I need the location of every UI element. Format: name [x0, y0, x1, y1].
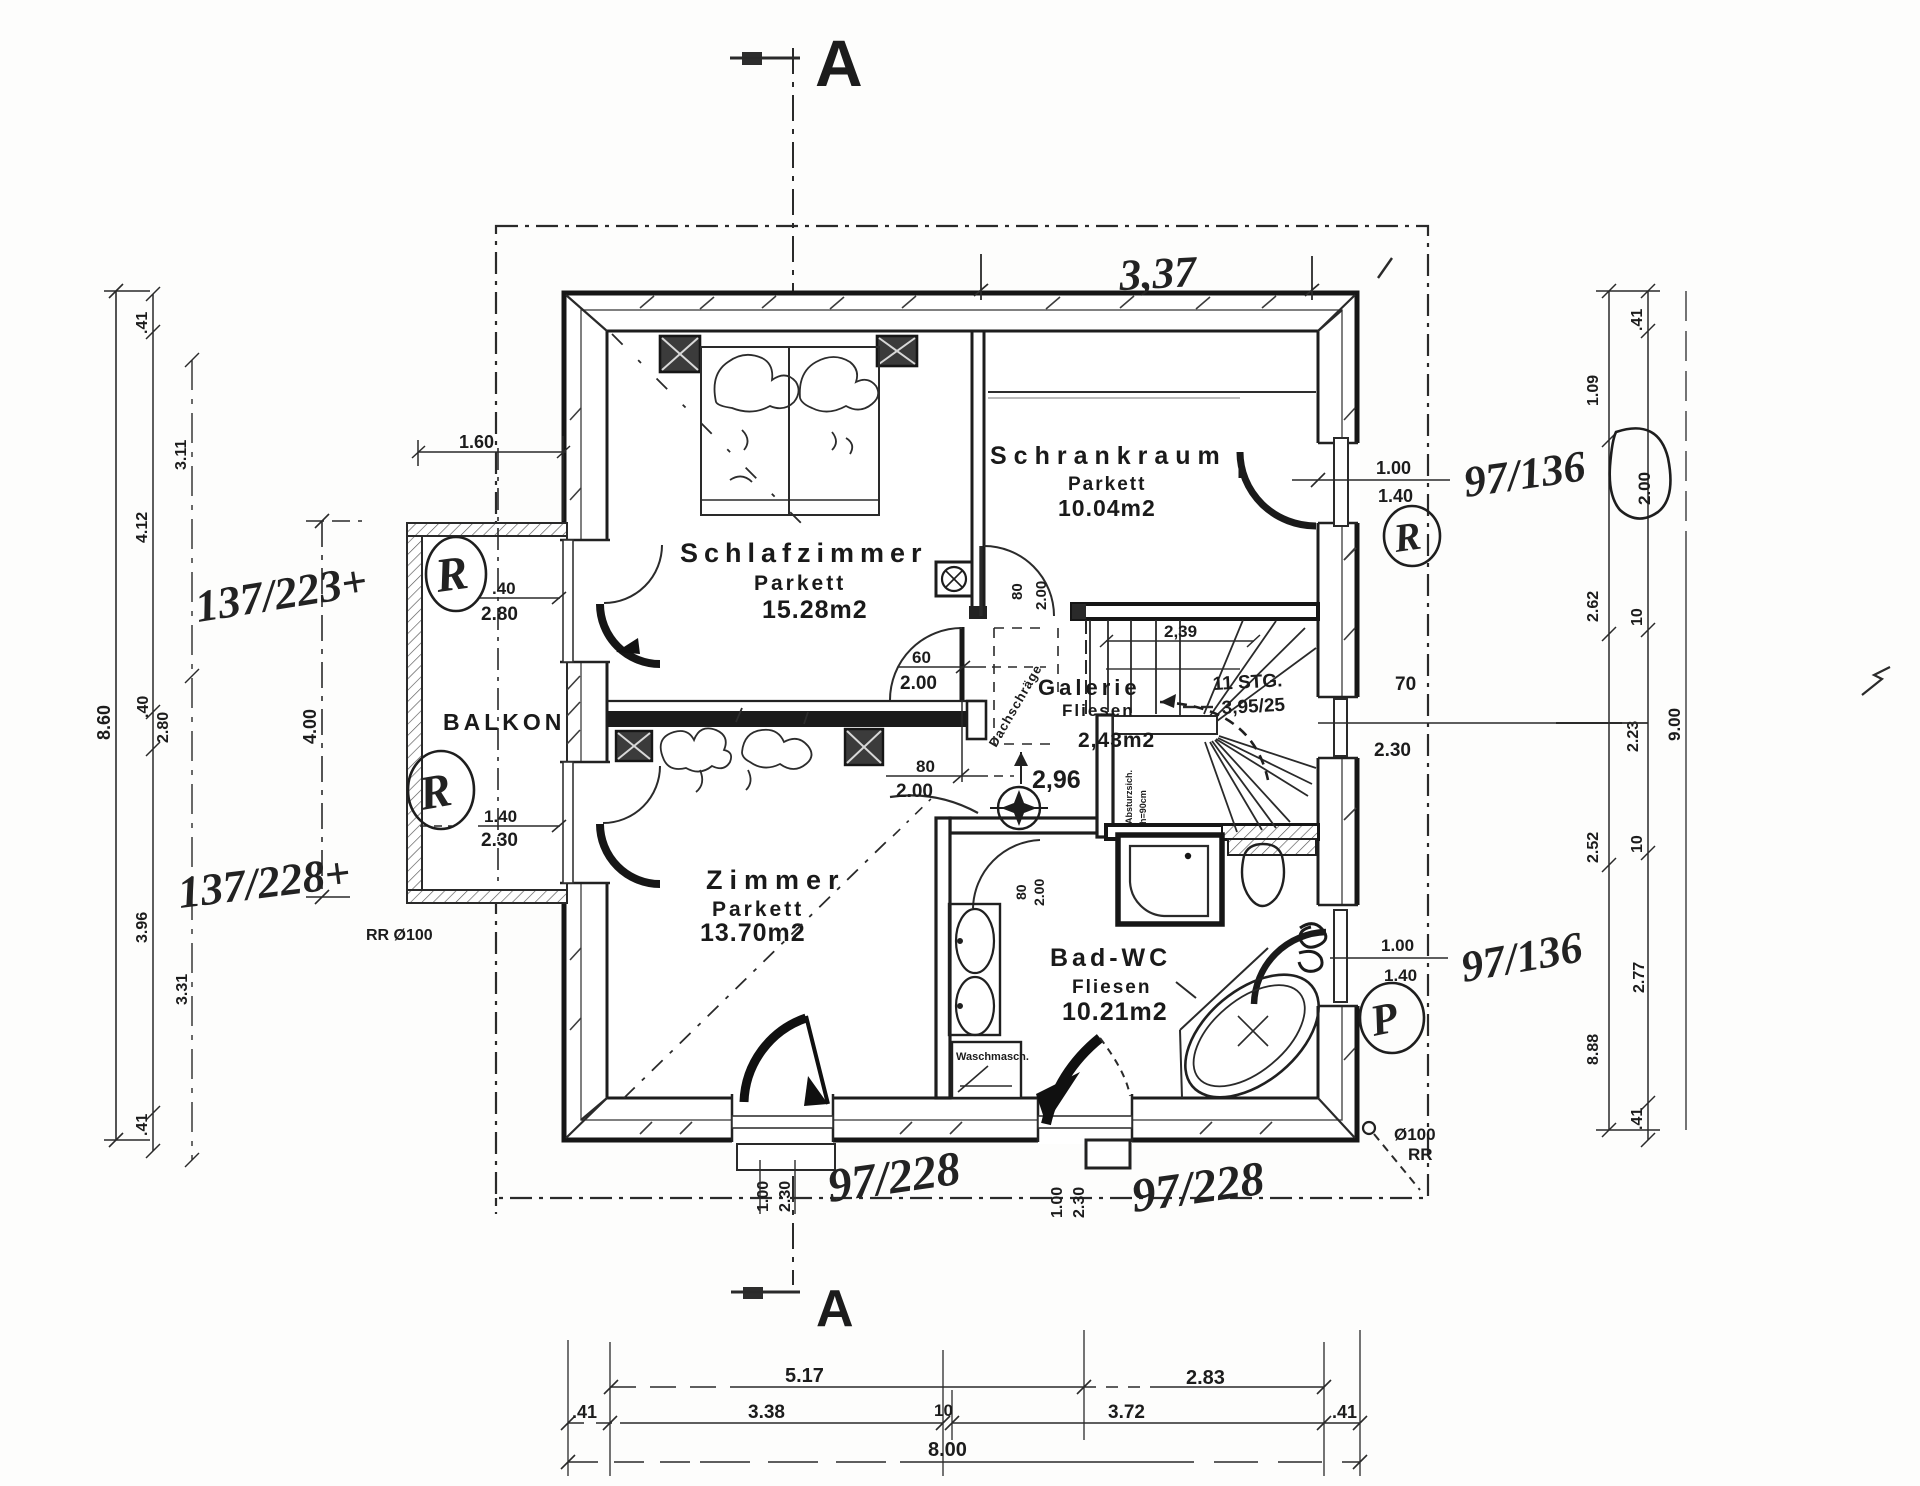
svg-text:Parkett: Parkett: [712, 898, 804, 921]
roof slope dash-dot Zimmer diagonal: [624, 842, 886, 1098]
stairwell left wall: [1097, 715, 1113, 837]
left dimension chain axes: [185, 353, 199, 1167]
hatch in left wall pier between balcony doors: [567, 676, 580, 744]
svg-text:2.30: 2.30: [1071, 1187, 1088, 1218]
top dimension 3,37 handwritten: [974, 254, 1319, 300]
svg-text:11 STG.: 11 STG.: [1212, 670, 1283, 695]
stair walk line dashed: [1160, 702, 1268, 780]
svg-text:Parkett: Parkett: [754, 572, 846, 595]
washbasin counter with two basins: [949, 904, 1000, 1035]
balcony axis dash-dot: [497, 448, 499, 886]
rotated dim 80/2.00 Schrankraum door: [1009, 581, 1050, 610]
door leaf arc lower thick: [600, 824, 660, 884]
bath entry door swing: [973, 840, 1040, 908]
svg-text:2,43m2: 2,43m2: [1078, 729, 1155, 752]
svg-text:10: 10: [934, 1401, 953, 1420]
small pause marks in Schrankraum: [1183, 706, 1213, 708]
Schrankraum door swing: [984, 546, 1054, 616]
bottom dims row 1: 5.17 / 2.83: [604, 1380, 1331, 1394]
svg-text:Parkett: Parkett: [1068, 474, 1146, 495]
bottom dimension block extension lines: [568, 1330, 1360, 1476]
dimension 1.40 / 2.30 (lower balcony door): [420, 820, 566, 832]
dim 2,39 stair: [1100, 635, 1260, 647]
opening Schrankraum window-door right wall 1.00/1.40: [1240, 438, 1360, 526]
svg-text:2,96: 2,96: [1032, 766, 1081, 794]
svg-text:2,39: 2,39: [1164, 622, 1197, 641]
svg-text:.41: .41: [1629, 1108, 1646, 1130]
svg-text:10.04m2: 10.04m2: [1058, 495, 1156, 521]
stair straight treads: [1090, 620, 1180, 715]
svg-text:1.60: 1.60: [459, 432, 494, 452]
svg-text:2.30: 2.30: [481, 830, 518, 851]
dimension 70/2.30 line to right margin: [1318, 722, 1622, 724]
rotated dim 1.00/2.30 at bath door: [1049, 1187, 1088, 1218]
svg-text:2.80: 2.80: [155, 712, 172, 743]
roof slope dash-dot across bed: [612, 334, 802, 524]
stair handrail void band: [1113, 716, 1217, 734]
svg-text:8.88: 8.88: [1585, 1034, 1602, 1065]
svg-text:.41: .41: [134, 1114, 151, 1136]
svg-text:10: 10: [1629, 608, 1646, 626]
opening balcony door lower (left wall): [558, 762, 660, 884]
door leaf arc lower thick: [600, 604, 660, 664]
svg-text:.41: .41: [572, 1402, 597, 1422]
svg-text:8.00: 8.00: [928, 1439, 967, 1461]
opening bath window right wall 1.00/1.40: [1254, 905, 1360, 1006]
lamp box with circle: [936, 562, 972, 596]
balcony slab and railing: [407, 523, 567, 903]
exterior wall mid line: [581, 310, 1342, 1120]
pillows scribble: [715, 355, 879, 482]
svg-text:Absturzsich.: Absturzsich.: [1124, 770, 1134, 824]
svg-text:A: A: [815, 26, 863, 100]
dim 80/2.00 Zimmer door: [886, 700, 1014, 783]
rotated dim 1.00/2.30 at Zimmer door: [755, 1181, 794, 1212]
bedside table right (box with cross): [877, 336, 917, 366]
svg-text:80: 80: [1013, 884, 1029, 900]
opening bath door bottom wall 1.00/2.30: [1036, 1038, 1132, 1168]
svg-text:80: 80: [1009, 583, 1026, 600]
svg-text:80: 80: [916, 757, 935, 776]
partition wall Schlafzimmer/Schrankraum: [969, 331, 987, 619]
door leaf arc upper thin: [603, 766, 660, 823]
svg-text:Ø100: Ø100: [1394, 1125, 1436, 1144]
door Schlafzimmer (60/2.00) leaf and swing: [890, 627, 962, 700]
bath west wall: [936, 818, 950, 1098]
svg-text:2.52: 2.52: [1585, 832, 1602, 863]
dimension 4.00 balcony height: [306, 514, 362, 904]
svg-text:13.70m2: 13.70m2: [700, 919, 806, 947]
svg-text:2.30: 2.30: [777, 1181, 794, 1212]
svg-text:4.00: 4.00: [300, 709, 320, 744]
svg-text:1.40: 1.40: [484, 807, 517, 826]
svg-text:1.00: 1.00: [1376, 458, 1411, 478]
svg-text:2.62: 2.62: [1585, 591, 1602, 622]
svg-text:.41: .41: [1332, 1402, 1357, 1422]
circled R balcony lower: [408, 751, 474, 829]
stair winder treads lower fan: [1205, 736, 1316, 832]
svg-text:2.83: 2.83: [1186, 1367, 1225, 1389]
stair winder treads upper fan: [1204, 620, 1316, 721]
bottom dims row 2: .41 3.38 10 3.72 .41: [561, 1416, 1367, 1430]
svg-text:Waschmasch.: Waschmasch.: [956, 1051, 1029, 1063]
handwritten scribble over window: [1299, 924, 1326, 972]
opening stair window right wall 70/2.30: [1316, 697, 1360, 758]
left dimension chain segments: [146, 287, 160, 1158]
svg-text:5.17: 5.17: [785, 1365, 824, 1387]
shower/WC separator: [1208, 839, 1222, 924]
svg-text:10: 10: [1629, 835, 1646, 853]
svg-text:1.40: 1.40: [1378, 486, 1413, 506]
svg-text:Schlafzimmer: Schlafzimmer: [680, 538, 928, 568]
svg-text:10.21m2: 10.21m2: [1062, 998, 1168, 1026]
svg-text:RR Ø100: RR Ø100: [366, 927, 433, 944]
svg-text:3.31: 3.31: [174, 974, 191, 1005]
right chain inner segments: [1596, 284, 1660, 1137]
svg-text:Galerie: Galerie: [1038, 675, 1141, 700]
circled R right margin: [1384, 506, 1440, 566]
dimension 1.60 above balcony: [412, 436, 570, 521]
exterior wall outer face: [564, 293, 1357, 1140]
door leaf arc upper thin: [604, 545, 662, 603]
section marker A bottom: [731, 1280, 854, 1338]
svg-text:.40: .40: [492, 579, 516, 598]
bedside table left (box with cross): [660, 336, 700, 372]
section line A-A vertical: [792, 48, 794, 1285]
washing machine box: [952, 1042, 1029, 1098]
right chain outer segments: [1641, 284, 1655, 1147]
svg-text:1.00: 1.00: [1049, 1187, 1066, 1218]
door Zimmer (80/2.00) swing: [890, 795, 978, 813]
WC tank hatched: [1228, 839, 1316, 855]
svg-text:Schrankraum: Schrankraum: [990, 442, 1227, 470]
Schrankraum south wall: [1072, 604, 1318, 619]
svg-text:2.00: 2.00: [900, 673, 937, 694]
dimension 1.00/1.40 (bath window): [1330, 957, 1448, 959]
exterior wall inner face: [607, 331, 1318, 1098]
svg-text:Zimmer: Zimmer: [706, 865, 846, 895]
svg-text:A: A: [816, 1280, 854, 1338]
WC bowl: [1242, 844, 1284, 906]
svg-text:2.00: 2.00: [1635, 472, 1654, 505]
radiator boxes Zimmer top wall: [616, 729, 883, 765]
opening terrace door bottom wall (Zimmer) 1.00/2.30: [732, 1016, 835, 1170]
extension tick from stair window: [1562, 722, 1648, 724]
left dimension chain total: [104, 284, 150, 1147]
stair upper-left edge line: [1085, 620, 1087, 716]
svg-text:3.72: 3.72: [1108, 1402, 1145, 1423]
svg-text:.40: .40: [135, 696, 152, 718]
svg-text:60: 60: [912, 648, 931, 667]
opening balcony door upper (left wall): [558, 540, 662, 664]
bottom dims row 3: 8.00 total: [561, 1455, 1367, 1469]
svg-text:2.30: 2.30: [1374, 740, 1411, 761]
outer site boundary dash-dot rectangle: [496, 226, 1428, 1214]
svg-text:3.11: 3.11: [173, 440, 190, 470]
door leaf thick swung: [1046, 1038, 1100, 1124]
svg-text:Bad-WC: Bad-WC: [1050, 944, 1171, 972]
svg-text:.41: .41: [1629, 309, 1646, 331]
svg-text:Fliesen: Fliesen: [1072, 977, 1151, 998]
svg-text:3.38: 3.38: [748, 1402, 785, 1423]
svg-text:BALKON: BALKON: [443, 709, 565, 735]
dim 60/2.00 Schlafzimmer door: [898, 661, 1046, 673]
corner bathtub: [1163, 948, 1342, 1121]
vent symbol circle with star: [990, 787, 1048, 829]
casement swing arc thick: [1240, 452, 1316, 526]
circled R balcony upper: [426, 537, 486, 611]
stray pen tick top right: [1378, 258, 1392, 278]
svg-text:Fliesen: Fliesen: [1062, 701, 1135, 720]
svg-text:h=90cm: h=90cm: [1138, 790, 1148, 824]
svg-text:3,95/25: 3,95/25: [1221, 695, 1286, 719]
svg-text:4.12: 4.12: [134, 512, 151, 543]
right chain total 9.00: [1685, 291, 1687, 1130]
rainpipe Ø100 RR bottom right: [1363, 1122, 1436, 1190]
shower tray: [1118, 835, 1222, 924]
level mark +2,96: [1014, 752, 1081, 794]
svg-text:1.00: 1.00: [1381, 936, 1414, 955]
dimension .40 / 2.80 (upper balcony door): [480, 592, 566, 604]
bath north wall: [950, 818, 1106, 833]
wardrobe scribbles in Zimmer: [661, 708, 812, 792]
stray pen mark right margin: [1862, 667, 1890, 695]
svg-text:3,37: 3,37: [1117, 247, 1199, 300]
svg-text:2.77: 2.77: [1631, 962, 1648, 993]
svg-text:2.00: 2.00: [896, 781, 933, 802]
Schrankraum wardrobe front line: [988, 391, 1316, 393]
svg-text:1.09: 1.09: [1585, 375, 1602, 406]
double bed: [701, 347, 879, 515]
svg-text:9.00: 9.00: [1665, 708, 1684, 741]
wall corner diagonals: [566, 295, 1355, 1138]
svg-text:3.96: 3.96: [134, 912, 151, 943]
stairwell bottom wall: [1106, 825, 1318, 839]
svg-text:15.28m2: 15.28m2: [762, 596, 868, 624]
dimension 1.00/1.40 (Schrankraum window): [1292, 473, 1450, 487]
svg-text:2.00: 2.00: [1031, 879, 1047, 906]
gallery dashed edge: [994, 628, 1058, 744]
svg-text:1.00: 1.00: [755, 1181, 772, 1212]
svg-text:2.00: 2.00: [1033, 581, 1050, 610]
section marker A top: [730, 26, 863, 100]
door leaf thick arc: [744, 1018, 806, 1102]
svg-text:RR: RR: [1408, 1145, 1433, 1164]
svg-text:2.80: 2.80: [481, 604, 518, 625]
svg-text:8.60: 8.60: [94, 705, 114, 740]
svg-text:2.23: 2.23: [1625, 721, 1642, 752]
casement swing arc thick: [1254, 932, 1326, 1004]
circled P right margin: [1360, 983, 1424, 1053]
wall Schlafzimmer south (to gallery): [607, 701, 986, 739]
svg-text:.41: .41: [134, 312, 151, 334]
wall hatch ticks top wall: [570, 296, 1356, 1134]
railing note rotated tiny: [1124, 770, 1148, 824]
svg-text:70: 70: [1395, 674, 1416, 695]
